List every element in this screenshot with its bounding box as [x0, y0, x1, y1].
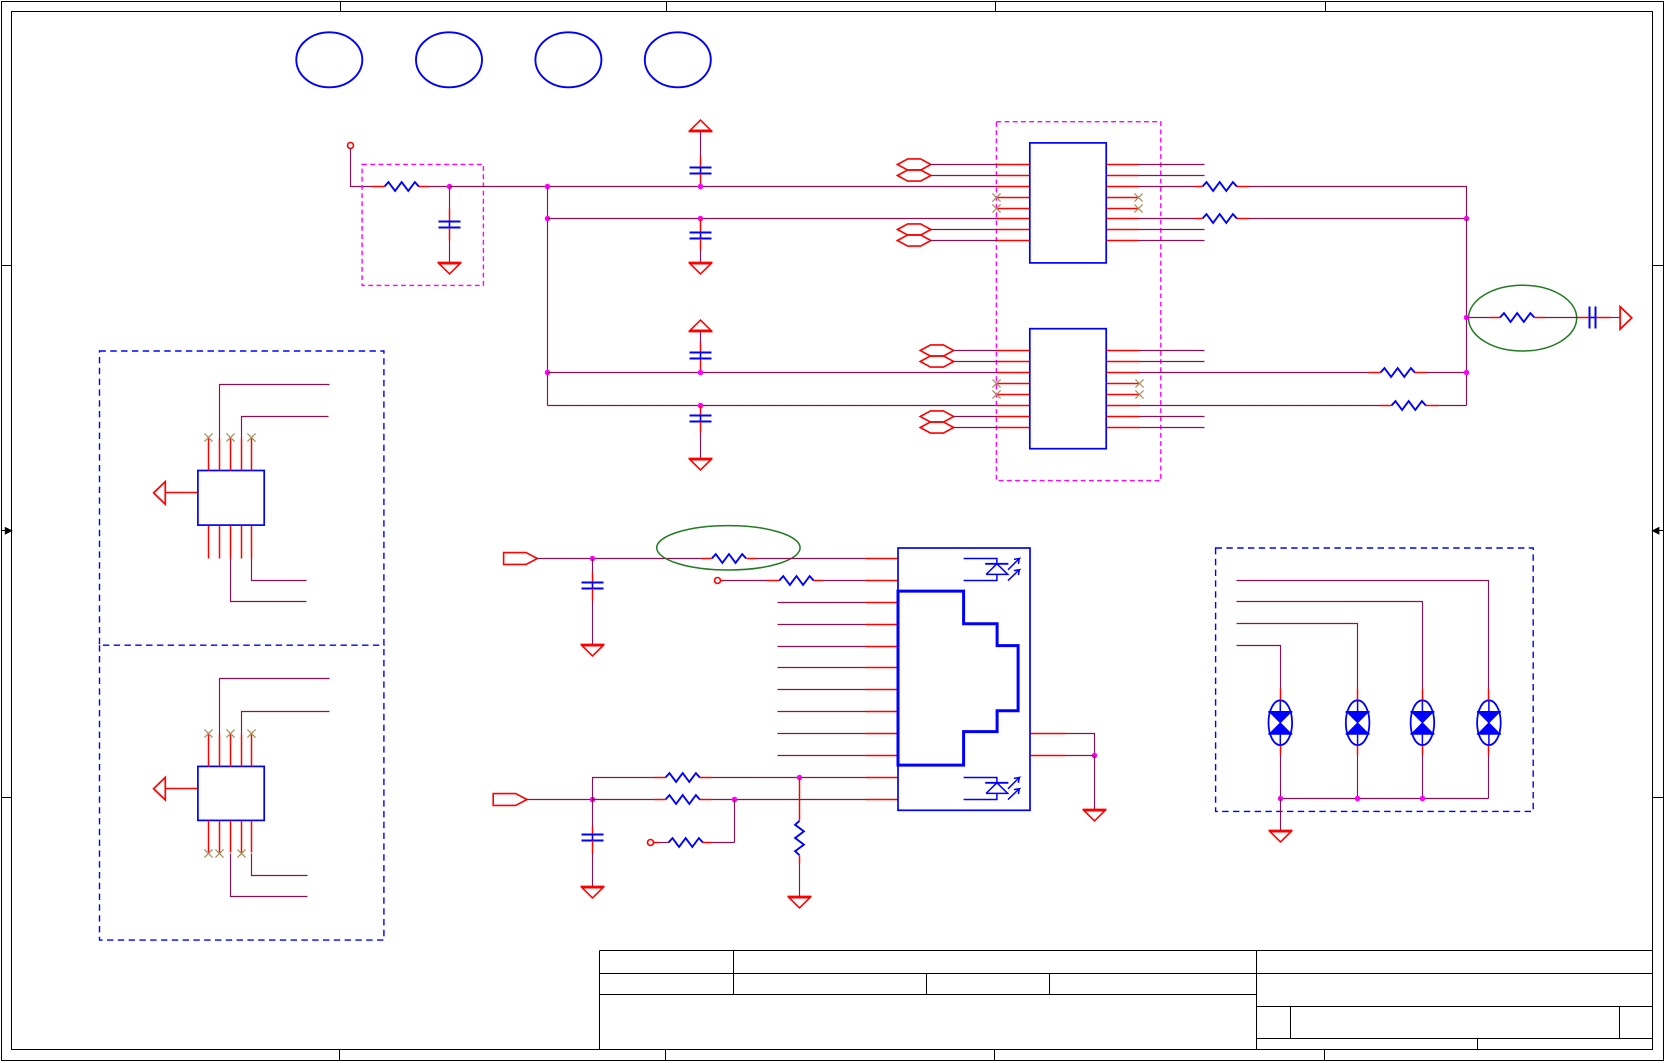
- blue dashed box module 1: [100, 351, 384, 645]
- IC U2 top pin stubs: [209, 735, 252, 767]
- wire T1 right pin1: [1139, 164, 1205, 166]
- no-connect X U2 top pin5: [247, 729, 255, 737]
- resistor R2: [1195, 182, 1249, 191]
- wire T2 right pin1: [1140, 350, 1205, 352]
- transformer T2 body: [1030, 329, 1106, 449]
- revision balloon ellipse 4: [645, 32, 711, 87]
- junction row12 sense: [732, 797, 738, 803]
- resistor R3: [1195, 214, 1249, 223]
- resistor R6: [1491, 313, 1545, 322]
- TVS diode D4: [1268, 689, 1292, 799]
- ground GND C3: [689, 263, 713, 274]
- green highlight ellipse 2: [1469, 285, 1577, 351]
- off-page hexagon P1D: [897, 235, 996, 246]
- wire trunk vertical 1: [547, 187, 549, 406]
- blue dashed box TVS module: [1216, 548, 1534, 811]
- wire T1 right pin8: [1139, 240, 1205, 242]
- wire row C to trunk2: [1427, 372, 1467, 374]
- capacitor C1: [439, 187, 461, 263]
- junction bus D4: [1278, 796, 1284, 802]
- transformer T1 body: [1030, 143, 1106, 263]
- ground GND TVS: [1269, 831, 1293, 842]
- wire node up to row11: [593, 778, 655, 800]
- wire terminal to R8: [721, 580, 767, 582]
- ground GND C8: [581, 887, 605, 898]
- no-connect X U1 top pin5: [247, 433, 255, 441]
- junction trunk2 row B: [1464, 216, 1470, 222]
- RJ45 J1 jack profile: [898, 591, 1018, 765]
- capacitor C7: [582, 559, 604, 645]
- transformer T1 left pin stubs: [997, 165, 1030, 241]
- wire U1 bottom pin3: [231, 559, 307, 602]
- RJ45 right pin10 stub: [1031, 755, 1066, 757]
- off-page hexagon P1B: [897, 170, 996, 181]
- revision balloon ellipse 2: [416, 32, 482, 87]
- RJ45 right pin9 stub: [1031, 733, 1066, 735]
- junction C2 row A: [698, 184, 704, 190]
- wire R6 to C6: [1545, 317, 1578, 319]
- magenta dashed box magnetics: [996, 122, 1160, 481]
- wire row A right: [1139, 186, 1195, 188]
- IC U2 body: [198, 766, 264, 820]
- border centre arrow right: [1653, 528, 1664, 534]
- off-page hexagon P2A: [920, 345, 996, 356]
- resistor R1: [372, 182, 429, 191]
- ground GND C5: [689, 459, 713, 470]
- ground GND R12: [788, 897, 812, 908]
- wire R7 to J1: [757, 558, 866, 560]
- wire node to R10: [593, 799, 655, 801]
- RJ45 J1 left pin stubs: [866, 559, 899, 800]
- wire T1 right pin2: [1139, 175, 1205, 177]
- title block: [600, 951, 1653, 1050]
- junction node N1: [447, 184, 453, 190]
- junction C5 row D: [698, 403, 704, 409]
- resistor R12 vertical: [795, 778, 804, 897]
- power flag VDD2: [689, 320, 713, 331]
- border centre arrow left: [2, 528, 12, 534]
- wire flag RX to node: [527, 799, 593, 801]
- wire row A (net CT1): [450, 186, 997, 188]
- junction trunk2 Bob-Smith: [1464, 315, 1470, 321]
- no-connect X U1 top pin3: [226, 433, 234, 441]
- off-page hexagon P2B: [920, 356, 996, 367]
- ground GND shield: [1083, 810, 1107, 821]
- no-connect X T2 pin4 left: [992, 379, 1000, 387]
- capacitor C3: [690, 219, 712, 263]
- wire R10 to J1 pin12: [712, 799, 866, 801]
- wire shield drop: [1094, 756, 1096, 810]
- capacitor C2: [690, 132, 712, 187]
- wire U1 top pin2: [220, 385, 330, 439]
- revision balloon ellipse 1: [296, 32, 362, 87]
- wire row C (net CT3): [548, 372, 997, 374]
- terminal T_SENSE open circle: [648, 840, 654, 846]
- wire U1 bottom pin5: [252, 559, 307, 581]
- off-page flag RX: [493, 794, 527, 806]
- no-connect X T1 pin5 left: [992, 204, 1000, 212]
- capacitor C4: [690, 332, 712, 373]
- resistor R11: [669, 838, 712, 847]
- junction row B trunk1: [545, 216, 551, 222]
- wire row C right: [1139, 372, 1369, 374]
- wire U2 top pin4: [242, 712, 330, 735]
- IC U1 top pin stubs: [209, 439, 252, 471]
- junction row12 node: [590, 797, 596, 803]
- no-connect X T1 pin5 right: [1134, 204, 1142, 212]
- RJ45 J1 body: [898, 548, 1030, 810]
- wire shield row9: [1066, 734, 1095, 756]
- TVS diode D3: [1346, 689, 1370, 799]
- resistor R8: [767, 576, 823, 585]
- no-connect X T2 pin5 left: [992, 390, 1000, 398]
- wire terminal to R11: [654, 842, 669, 844]
- wire TVS feed D3: [1237, 624, 1358, 689]
- magenta dashed box RC filter: [362, 164, 483, 285]
- junction row C trunk1: [545, 370, 551, 376]
- wire T2 right pin7: [1140, 416, 1205, 418]
- transformer T2 right pin stubs: [1107, 351, 1140, 428]
- no-connect X U2 top pin1: [204, 729, 212, 737]
- no-connect X T2 pin4 right: [1135, 379, 1143, 387]
- wire row D (net CT4): [548, 405, 997, 407]
- junction row A trunk1: [545, 184, 551, 190]
- wire R9 to J1 pin11: [712, 777, 866, 779]
- junction bus D3: [1355, 796, 1361, 802]
- wire R11 to sense drop: [712, 842, 735, 844]
- IC U1 body: [198, 471, 264, 526]
- IC U2 bottom pin stubs: [209, 821, 252, 853]
- wire R1 to node: [429, 186, 450, 188]
- wire row D to trunk2: [1439, 405, 1467, 407]
- wire row A to trunk2: [1249, 187, 1467, 219]
- wire T1 right pin7: [1139, 229, 1205, 231]
- no-connect X U2 bottom pin4: [237, 849, 245, 857]
- wire U1 top pin4: [242, 417, 329, 439]
- power flag VDD1: [689, 120, 713, 131]
- off-page hexagon P1A: [897, 159, 996, 170]
- resistor R5: [1380, 401, 1439, 410]
- resistor R4: [1369, 368, 1427, 377]
- revision balloon ellipse 3: [535, 32, 601, 87]
- wire R8 to J1: [823, 580, 866, 582]
- wire TVS feed D1: [1237, 581, 1489, 689]
- wire row B (net CT2): [548, 218, 997, 220]
- wire U2 bottom pin5: [252, 854, 308, 876]
- off-page hexagon P2C: [920, 411, 996, 422]
- capacitor C8: [582, 800, 604, 887]
- wire T2 right pin2: [1140, 361, 1205, 363]
- wire flag TX to J1 pin1: [538, 558, 702, 560]
- wire TVS feed D2: [1237, 602, 1423, 689]
- no-connect X U2 top pin3: [226, 729, 234, 737]
- wire shield row10: [1066, 755, 1095, 757]
- wire TVS feed D4: [1237, 646, 1281, 689]
- off-page arrow U1: [154, 482, 198, 505]
- resistor R10: [655, 795, 712, 804]
- wire J1 pins 3-10 stubs: [778, 603, 866, 756]
- wire T2 right pin8: [1140, 427, 1205, 429]
- junction row11 R12: [797, 775, 803, 781]
- wire U2 top pin2: [220, 679, 330, 735]
- ground GND C7: [581, 645, 605, 656]
- wire row D right: [1139, 405, 1380, 407]
- wire bus to ground: [1280, 799, 1282, 831]
- junction trunk2 row C: [1464, 370, 1470, 376]
- ground GND C1: [438, 263, 462, 274]
- junction C4 row C: [698, 370, 704, 376]
- junction shield: [1092, 753, 1098, 759]
- wire U2 bottom pin3: [231, 854, 308, 897]
- capacitor C5: [690, 406, 712, 459]
- wire sense drop: [734, 800, 736, 843]
- IC U1 bottom pin stubs: [209, 526, 252, 559]
- off-page hexagon P2D: [920, 422, 996, 433]
- TVS diode D1: [1477, 689, 1501, 799]
- no-connect X T1 pin4 right: [1134, 193, 1142, 201]
- no-connect X U2 bottom pin2: [215, 849, 223, 857]
- junction bus D2: [1420, 796, 1426, 802]
- terminal T_LED open circle: [715, 578, 721, 584]
- off-page arrow U2: [154, 777, 198, 800]
- LED indicator D6 (in J1): [964, 778, 1020, 800]
- junction C7 row1: [590, 556, 596, 562]
- blue dashed box module 2: [100, 645, 384, 940]
- wire net VCC entry: [351, 149, 372, 187]
- transformer T2 left pin stubs: [997, 351, 1030, 428]
- off-page flag TX: [504, 553, 538, 565]
- wire trunk vertical 2: [1466, 219, 1468, 406]
- green highlight ellipse 1: [657, 526, 800, 570]
- terminal J2 open circle: [348, 143, 354, 149]
- no-connect X T2 pin5 right: [1135, 390, 1143, 398]
- LED indicator D5 (in J1): [964, 559, 1020, 581]
- capacitor C6: [1578, 307, 1621, 329]
- wire TVS ground bus: [1281, 798, 1489, 800]
- wire row B to trunk2: [1249, 218, 1467, 220]
- resistor R9: [655, 773, 712, 782]
- off-page arrow CHASSIS: [1620, 307, 1632, 330]
- no-connect X U2 bottom pin1: [204, 849, 212, 857]
- no-connect X U1 top pin1: [204, 433, 212, 441]
- junction C3 row B: [698, 216, 704, 222]
- no-connect X T1 pin4 left: [992, 193, 1000, 201]
- TVS diode D2: [1410, 689, 1434, 799]
- resistor R7: [702, 554, 757, 563]
- off-page hexagon P1C: [897, 224, 996, 235]
- wire trunk2 to R6: [1467, 317, 1491, 319]
- transformer T1 right pin stubs: [1107, 165, 1139, 241]
- wire row B right: [1139, 218, 1195, 220]
